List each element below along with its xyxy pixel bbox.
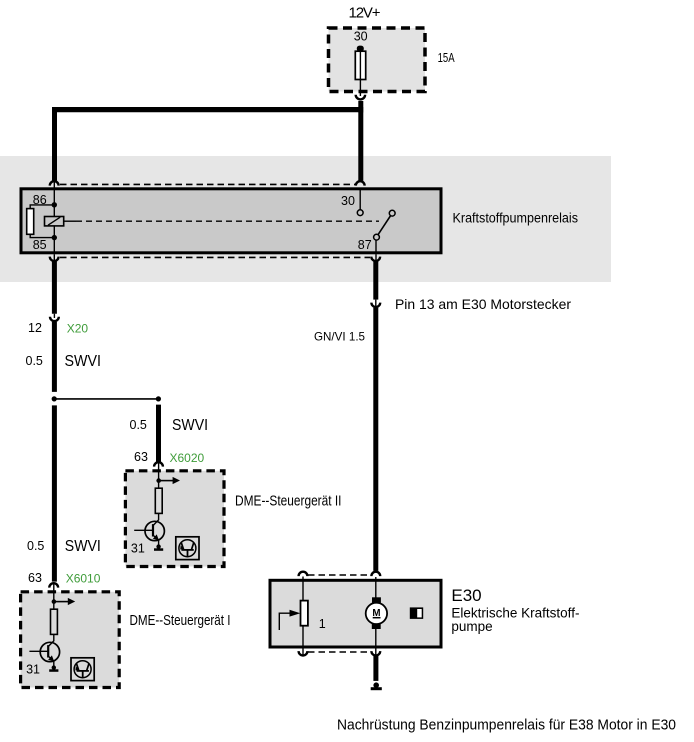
wire pin87 internal xyxy=(375,240,377,255)
svg-text:0.5: 0.5 xyxy=(130,418,147,432)
pin13 cup pin xyxy=(375,300,377,308)
svg-text:E30: E30 xyxy=(451,586,481,605)
dashed connector plane bottom of pump xyxy=(308,651,371,653)
fuse F1 15A xyxy=(355,46,365,96)
svg-text:12V+: 12V+ xyxy=(349,5,381,22)
wire: branch down to X6020 xyxy=(156,405,161,462)
dashed connector plane bottom of relay xyxy=(60,256,370,258)
resistor R (relay) xyxy=(27,209,34,235)
svg-text:31: 31 xyxy=(131,542,145,556)
svg-text:87: 87 xyxy=(358,238,372,252)
relay K1 box Kraftstoffpumpenrelais xyxy=(21,189,441,253)
connector relay bottom-left (cup) xyxy=(50,257,59,261)
svg-text:15A: 15A xyxy=(438,51,455,65)
DME dashed box xyxy=(125,471,224,567)
contact arm top xyxy=(389,210,395,216)
transistor Q circle xyxy=(145,521,164,540)
wire pin86 internal xyxy=(53,181,55,205)
svg-text:Kraftstoffpumpenrelais: Kraftstoffpumpenrelais xyxy=(453,210,579,225)
svg-text:Nachrüstung Benzinpumpenrelais: Nachrüstung Benzinpumpenrelais für E38 M… xyxy=(337,718,676,734)
wire: X20 down to junction xyxy=(52,322,57,392)
connector X (cup) xyxy=(154,462,163,466)
svg-text:63: 63 xyxy=(28,571,42,585)
wire pin30 internal xyxy=(359,190,361,210)
junction node A dot xyxy=(52,396,57,401)
svg-text:0.5: 0.5 xyxy=(27,539,44,553)
connector relay top-left (cup) xyxy=(50,181,59,185)
connector X20 xyxy=(50,317,59,321)
svg-text:63: 63 xyxy=(134,450,148,464)
svg-text:X6020: X6020 xyxy=(170,451,205,465)
connector pump bottom-left (cup) xyxy=(299,651,308,655)
svg-text:DME--Steuergerät II: DME--Steuergerät II xyxy=(235,492,342,509)
sensor pin bottom xyxy=(302,626,304,655)
fuel pump box E30 xyxy=(270,580,441,647)
emitter lead with arrow xyxy=(153,535,159,540)
connector pump top-right (cup) xyxy=(371,572,380,576)
dashed mechanical link xyxy=(76,220,379,222)
resistor lead top xyxy=(30,205,54,209)
fuse box (dashed) xyxy=(329,28,426,92)
svg-text:SWVI: SWVI xyxy=(65,538,101,555)
ground (pump) xyxy=(373,682,379,688)
wire branch horizontal xyxy=(54,398,158,400)
pump icon xyxy=(410,607,423,619)
wire coil vertical xyxy=(53,205,55,238)
connector pin13 xyxy=(371,303,380,307)
svg-text:30: 30 xyxy=(354,30,368,44)
svg-text:SWVI: SWVI xyxy=(65,353,102,370)
junction dot 85 xyxy=(52,235,57,240)
svg-text:0.5: 0.5 xyxy=(26,354,43,368)
resistor lead bottom xyxy=(30,234,54,237)
svg-text:Pin 13 am E30 Motorstecker: Pin 13 am E30 Motorstecker xyxy=(395,296,571,312)
wire: fuse down to bus xyxy=(358,101,363,112)
connector relay top-right (cup) xyxy=(356,181,365,185)
DME control unit I (clone of II) xyxy=(21,583,120,688)
wire pin85 internal xyxy=(53,238,55,255)
svg-text:85: 85 xyxy=(33,238,47,252)
relay coil xyxy=(45,217,64,226)
junction node B dot xyxy=(156,396,161,401)
svg-text:pumpe: pumpe xyxy=(451,619,492,634)
svg-text:GN/VI 1.5: GN/VI 1.5 xyxy=(314,330,365,344)
wire: relay 85 down to X20 xyxy=(52,261,57,314)
dashed connector plane top of pump xyxy=(308,574,371,576)
emitter to ground wire xyxy=(158,540,160,546)
connector pump bottom-right (cup) xyxy=(371,651,380,655)
gray band behind relay row xyxy=(0,156,611,282)
base lead xyxy=(134,529,153,531)
contact arm pivot xyxy=(374,234,380,240)
connector relay bottom-right (cup) xyxy=(371,257,380,261)
output arrow xyxy=(159,480,173,482)
X20 cup pin xyxy=(53,314,55,318)
pin87 cup pin xyxy=(375,255,377,261)
ECU icon box xyxy=(176,537,199,560)
wire: horizontal bus xyxy=(52,107,363,112)
wire: relay 87 down to pin13 connector xyxy=(373,261,378,300)
svg-text:X20: X20 xyxy=(67,322,89,336)
level sensor 1 xyxy=(301,601,308,626)
dashed connector plane top of relay xyxy=(60,183,355,185)
svg-text:SWVI: SWVI xyxy=(172,417,208,434)
connector fuse-to-bus (cup) xyxy=(356,95,365,100)
svg-text:DME--Steuergerät I: DME--Steuergerät I xyxy=(130,612,231,629)
motor pin top xyxy=(375,577,377,598)
motor M xyxy=(372,597,381,603)
svg-text:X6010: X6010 xyxy=(66,571,101,585)
svg-text:1: 1 xyxy=(319,617,326,631)
wire: bus down to relay pin 86 xyxy=(52,107,57,181)
resistor (DME) xyxy=(155,488,162,513)
sensor wiper arrow xyxy=(279,613,290,630)
collector lead xyxy=(153,513,158,525)
junction dot xyxy=(156,478,161,483)
DME control unit II group xyxy=(125,462,224,567)
sensor pin top xyxy=(302,577,304,601)
pin into box xyxy=(158,462,160,488)
wire: junction down to X6010 xyxy=(52,405,57,581)
transistor base bar xyxy=(152,524,154,536)
coil link lead xyxy=(64,220,76,222)
motor pin bottom xyxy=(375,629,377,656)
wire: bus down to relay pin 30 xyxy=(358,112,363,181)
contact pin30 xyxy=(357,210,363,216)
wire: pin13 down to pump xyxy=(373,308,378,571)
svg-text:12: 12 xyxy=(28,321,42,335)
wire: pump down to ground xyxy=(373,656,378,681)
switch arm xyxy=(377,214,393,238)
connector pump top-left (cup) xyxy=(299,572,308,576)
ground (DME) xyxy=(156,544,160,548)
junction dot 86 xyxy=(52,202,57,207)
pin85 cup pin xyxy=(53,255,55,261)
svg-text:30: 30 xyxy=(341,194,355,208)
